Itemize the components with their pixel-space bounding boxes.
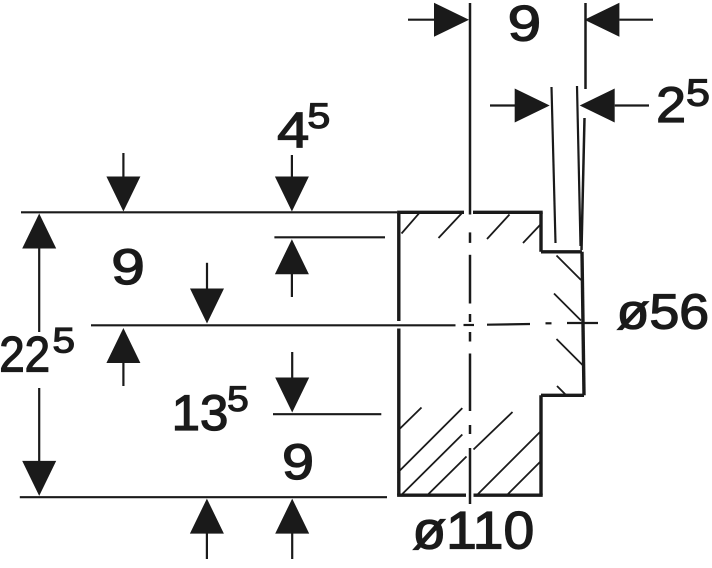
svg-text:5: 5: [53, 322, 76, 361]
svg-text:9: 9: [282, 434, 314, 490]
svg-text:9: 9: [508, 0, 542, 52]
svg-text:13: 13: [172, 385, 229, 441]
svg-text:2: 2: [656, 77, 686, 133]
svg-text:4: 4: [277, 103, 309, 159]
svg-text:5: 5: [686, 73, 710, 115]
svg-text:5: 5: [307, 97, 330, 136]
svg-text:5: 5: [227, 380, 249, 419]
svg-text:ø110: ø110: [412, 501, 534, 560]
svg-text:ø56: ø56: [617, 285, 709, 339]
svg-text:22: 22: [0, 327, 50, 383]
svg-text:9: 9: [111, 239, 145, 295]
